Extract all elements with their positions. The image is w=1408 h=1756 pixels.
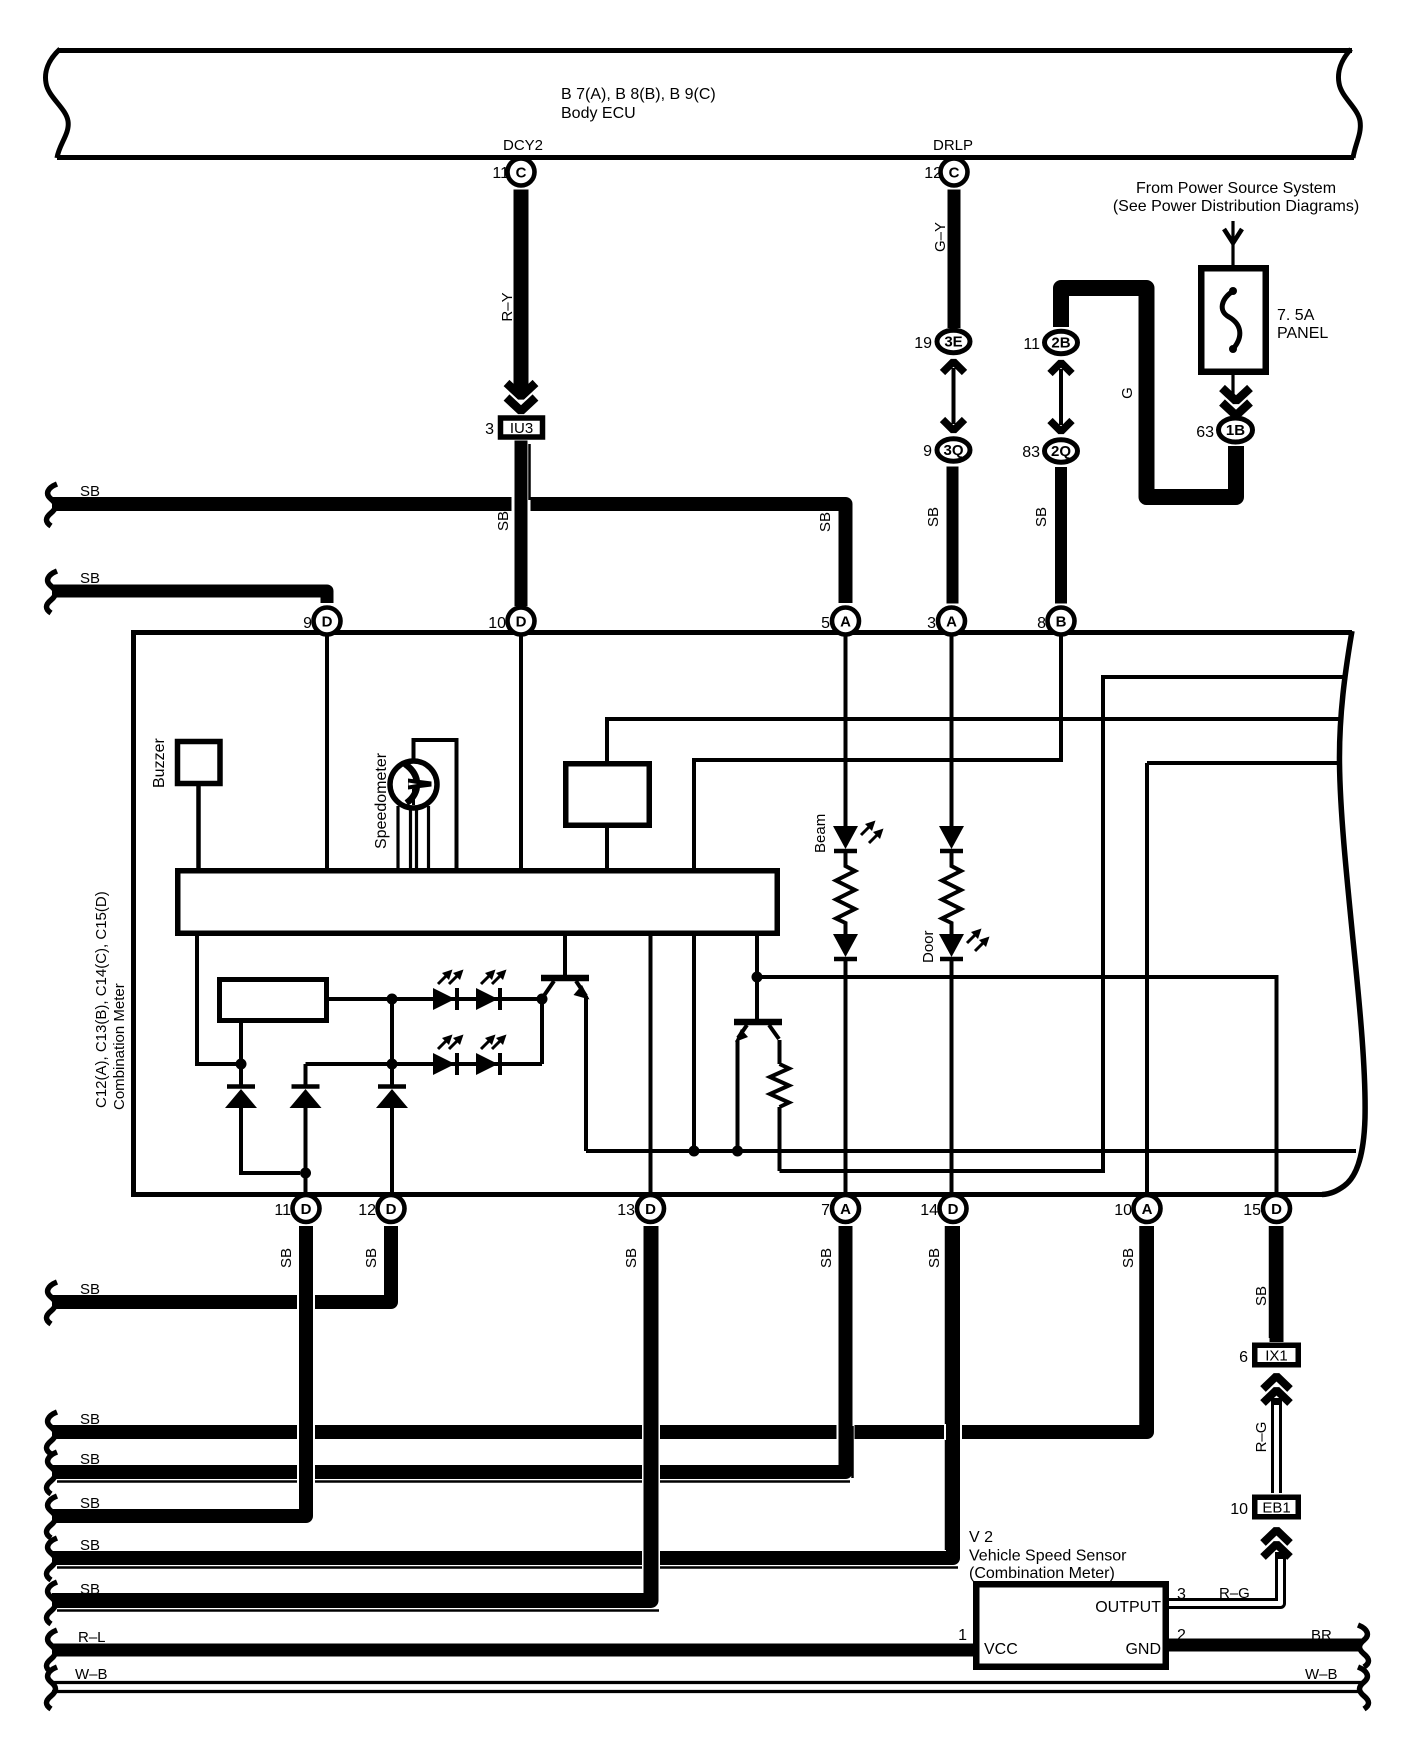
svg-text:V 2: V 2 [969, 1529, 993, 1546]
svg-text:R–G: R–G [1253, 1422, 1270, 1453]
svg-text:SB: SB [278, 1248, 295, 1268]
leftover thin wire under SB5 [57, 1566, 958, 1569]
harness break squiggle [47, 1412, 58, 1454]
arrow into IX1 [1263, 1376, 1290, 1389]
svg-text:Combination Meter: Combination Meter [111, 983, 128, 1110]
transistor Q2 [734, 1019, 782, 1026]
wire control block to D1 node [239, 1023, 243, 1064]
transistor Q1 base lead [563, 936, 567, 975]
wire row1 to diode D3 [390, 999, 394, 1086]
wire G-Y from C to 3E [948, 190, 961, 329]
wire R-Y from C to IU3 [514, 190, 529, 395]
wire SB pin 12D to harness break [382, 1226, 400, 1294]
svg-text:B 7(A), B 8(B), B 9(C): B 7(A), B 8(B), B 9(C) [561, 86, 716, 103]
leftover thin wire beside 14D wire [945, 1226, 948, 1424]
svg-text:Vehicle Speed Sensor: Vehicle Speed Sensor [969, 1548, 1127, 1565]
svg-text:SB: SB [495, 511, 512, 531]
svg-text:SB: SB [925, 507, 942, 527]
wire gauge block bottom to internal bus [605, 828, 609, 868]
svg-text:D: D [386, 1201, 397, 1218]
wire R2 to net A rail [778, 1107, 782, 1171]
svg-text:9: 9 [923, 443, 932, 460]
svg-text:IU3: IU3 [510, 420, 533, 437]
diode D3 [378, 1084, 406, 1089]
svg-text:PANEL: PANEL [1277, 325, 1328, 342]
leftover thin wire under SB6 [57, 1609, 659, 1612]
svg-text:SB: SB [1120, 1248, 1137, 1268]
node row1 right junction [537, 994, 548, 1005]
wire D1 to pin 11D node [241, 1108, 300, 1173]
svg-text:SB: SB [80, 1281, 100, 1298]
svg-text:D: D [645, 1201, 656, 1218]
connector pin 5 (A) [832, 608, 859, 635]
LED L2 [476, 988, 498, 1010]
svg-text:(See Power Distribution Diagra: (See Power Distribution Diagrams) [1113, 198, 1359, 215]
connector pin 9 (D) [314, 608, 341, 635]
svg-text:C12(A), C13(B), C14(C), C15(D): C12(A), C13(B), C14(C), C15(D) [93, 891, 110, 1108]
svg-text:3Q: 3Q [943, 442, 963, 459]
harness break squiggle [47, 1630, 58, 1672]
harness break squiggle [47, 571, 58, 613]
svg-text:G: G [1119, 387, 1136, 399]
diode D1 [227, 1084, 255, 1089]
svg-text:R–Y: R–Y [499, 292, 516, 321]
node pin 11D junction [300, 1168, 311, 1179]
wire bus to Q2 base node [755, 936, 759, 1019]
internal bus bar [178, 871, 778, 934]
fuse 7.5A PANEL box [1201, 268, 1266, 372]
svg-text:DCY2: DCY2 [503, 137, 543, 154]
arrow into 1B [1222, 388, 1250, 401]
connector pin 10 (A) [1134, 1195, 1161, 1222]
svg-text:12: 12 [358, 1202, 376, 1219]
wire arrow into IU3 [507, 383, 536, 397]
resistor (Door chain) [942, 851, 961, 934]
harness break squiggle (left) [47, 1667, 58, 1709]
svg-text:2: 2 [1177, 1627, 1186, 1644]
svg-text:BR: BR [1311, 1627, 1332, 1644]
svg-text:A: A [946, 614, 957, 631]
fuse element [1222, 291, 1240, 349]
wire between 2B and 2Q [1059, 369, 1063, 425]
svg-text:7. 5A: 7. 5A [1277, 307, 1315, 324]
svg-text:19: 19 [914, 335, 932, 352]
resistor R2 [770, 1064, 789, 1107]
wire Q1 emitter to rail [584, 996, 588, 1151]
wire G from 2B to 1B [1061, 288, 1236, 497]
svg-text:10: 10 [1230, 1501, 1248, 1518]
leftover thin wire beside IU3 wire [528, 444, 531, 500]
buzzer [178, 742, 221, 784]
wire SB from IU3 to meter pin 10D (crosses SB bus) [512, 480, 531, 528]
node row1 left junction [387, 994, 398, 1005]
vehicle speed sensor box [976, 1584, 1166, 1667]
LED L1 [433, 988, 455, 1010]
svg-text:D: D [301, 1201, 312, 1218]
svg-text:10: 10 [488, 615, 506, 632]
wire row2 to row1 [540, 999, 544, 1064]
node Q2 base junction [752, 972, 763, 983]
svg-text:Door: Door [920, 930, 937, 963]
internal control block [220, 980, 327, 1021]
node emitter rail junction 2 [732, 1146, 743, 1157]
wire LED Door to pin 14D [950, 960, 954, 1192]
svg-text:SB: SB [80, 1495, 100, 1512]
svg-text:2Q: 2Q [1051, 443, 1071, 460]
svg-text:D: D [948, 1201, 959, 1218]
transistor Q1 [541, 975, 589, 982]
wire SB from 3Q to meter pin 3A [947, 467, 959, 604]
connector 2Q [1045, 440, 1078, 462]
meter box top edge [131, 630, 1352, 635]
svg-text:OUTPUT: OUTPUT [1095, 1599, 1161, 1616]
svg-text:63: 63 [1196, 424, 1214, 441]
connector EB1 [1255, 1497, 1299, 1517]
connector pin 7 (A) [832, 1195, 859, 1222]
wire pin 10D to internal bus [519, 635, 523, 868]
wire between 3E and 3Q [952, 368, 956, 424]
mating arrow down above 3Q [943, 420, 965, 431]
wire loop from speedometer top to internal bus [414, 740, 457, 868]
speedometer gauge symbol [390, 761, 437, 808]
wire pin 9D to internal bus [325, 635, 329, 868]
svg-text:A: A [840, 614, 851, 631]
diode (Beam chain) [833, 934, 858, 957]
svg-text:A: A [1142, 1201, 1153, 1218]
mating arrow up below 3E [943, 362, 965, 373]
svg-text:9: 9 [303, 615, 312, 632]
connector C (DRLP, Body ECU) [941, 159, 968, 186]
svg-text:10: 10 [1114, 1202, 1132, 1219]
wire SB from 2Q to meter pin 8B [1055, 467, 1067, 604]
wire R-G from sensor OUTPUT to EB1 [1169, 1552, 1281, 1604]
node emitter rail junction 1 [689, 1146, 700, 1157]
internal gauge block [566, 764, 650, 826]
LED Door [939, 934, 964, 957]
connector pin 8 (B) [1048, 608, 1075, 635]
svg-text:EB1: EB1 [1262, 1500, 1290, 1517]
harness break squiggle [47, 1496, 58, 1538]
wire bus to diode D1 node [197, 936, 237, 1064]
wire Q2 collector to resistor R2 [778, 1040, 782, 1064]
svg-text:C: C [516, 165, 527, 182]
svg-text:3: 3 [485, 421, 494, 438]
svg-text:IX1: IX1 [1265, 1348, 1288, 1365]
svg-text:D: D [516, 614, 527, 631]
LED Beam [833, 826, 858, 849]
svg-text:SB: SB [1033, 507, 1050, 527]
wire D1 node to diode D1 [239, 1064, 243, 1086]
harness break squiggle [47, 1538, 58, 1580]
svg-text:11: 11 [492, 165, 509, 182]
connector pin 11 (D) [293, 1195, 320, 1222]
svg-text:SB: SB [80, 1581, 100, 1598]
svg-text:SB: SB [80, 483, 100, 500]
wire pin 3A down [950, 635, 954, 827]
connector pin 12 (D) [378, 1195, 405, 1222]
wire D2 to pin 11D [304, 1108, 308, 1192]
wire from power source into fuse [1231, 221, 1234, 266]
wire W-B across bottom [52, 1681, 1362, 1684]
wire R-G from EB1 to IX1 [1271, 1398, 1282, 1493]
wire SB pin 7A to harness break [837, 1226, 855, 1464]
svg-text:14: 14 [920, 1202, 938, 1219]
wire SB pin 10A to harness break [52, 1226, 1147, 1432]
svg-text:(Combination Meter): (Combination Meter) [969, 1565, 1115, 1582]
svg-text:SB: SB [363, 1248, 380, 1268]
svg-text:B: B [1056, 614, 1067, 631]
svg-text:SB: SB [80, 1451, 100, 1468]
svg-text:R–G: R–G [1219, 1585, 1250, 1602]
connector pin 10 (D) [508, 608, 535, 635]
svg-text:W–B: W–B [1305, 1666, 1338, 1683]
Body ECU box outline [59, 48, 1352, 53]
harness break squiggle (right) [1358, 1667, 1369, 1709]
LED L3 [433, 1053, 455, 1075]
leftover thin wire beside 15D wire [1269, 1226, 1272, 1338]
svg-text:SB: SB [80, 570, 100, 587]
wire diode to pin 7A [844, 960, 848, 1192]
svg-text:SB: SB [818, 1248, 835, 1268]
connector IU3 [501, 418, 543, 437]
svg-text:7: 7 [821, 1202, 830, 1219]
connector 3E [937, 330, 970, 352]
svg-text:DRLP: DRLP [933, 137, 973, 154]
svg-text:G–Y: G–Y [932, 222, 949, 252]
svg-text:SB: SB [926, 1248, 943, 1268]
harness break squiggle [47, 484, 58, 526]
from-power arrow [1224, 229, 1242, 243]
mating arrow down above 2Q [1050, 421, 1072, 432]
net A wire to torn edge [780, 677, 1344, 1171]
svg-text:11: 11 [1023, 336, 1040, 353]
harness break squiggle [47, 1582, 58, 1624]
wire SB from harness break to meter pin 9D [52, 591, 327, 603]
svg-text:12: 12 [924, 165, 942, 182]
wire pin 10A internal riser [1145, 763, 1149, 1192]
svg-text:W–B: W–B [75, 1666, 108, 1683]
svg-text:11: 11 [274, 1202, 291, 1219]
svg-text:SB: SB [80, 1411, 100, 1428]
arrow into EB1 [1263, 1530, 1290, 1543]
connector pin 14 (D) [940, 1195, 967, 1222]
meter box left edge [131, 630, 136, 1197]
wire pin 5A down [844, 635, 848, 827]
svg-text:D: D [322, 614, 333, 631]
svg-text:2B: 2B [1051, 335, 1070, 352]
svg-text:VCC: VCC [984, 1641, 1018, 1658]
wire D3 to pin 12D [390, 1108, 394, 1192]
wire bus to emitter rail [692, 936, 696, 1151]
svg-text:3: 3 [927, 615, 936, 632]
connector 2B [1045, 331, 1078, 353]
harness break squiggle [47, 1452, 58, 1494]
svg-text:83: 83 [1022, 444, 1040, 461]
meter box torn right edge [1322, 631, 1365, 1195]
wire SB pin 15D to IX1 [1270, 1226, 1284, 1342]
wire row2 to diode D2 [304, 1064, 308, 1086]
wire gauge block top to net B [607, 719, 1341, 761]
LED row 2 wire [306, 1062, 543, 1066]
connector pin 13 (D) [637, 1195, 664, 1222]
svg-text:3E: 3E [944, 334, 962, 351]
node D1 junction [236, 1059, 247, 1070]
svg-text:GND: GND [1125, 1641, 1161, 1658]
svg-text:C: C [949, 165, 960, 182]
svg-text:R–L: R–L [78, 1629, 106, 1646]
wire buzzer to internal bus [196, 786, 201, 869]
svg-text:8: 8 [1037, 615, 1046, 632]
resistor (Beam chain) [836, 851, 855, 934]
wire bus to pin 13D [649, 936, 653, 1192]
svg-text:SB: SB [623, 1248, 640, 1268]
svg-text:1B: 1B [1226, 422, 1245, 439]
svg-text:6: 6 [1239, 1349, 1248, 1366]
harness break squiggle (right) [1358, 1625, 1369, 1667]
svg-text:Body ECU: Body ECU [561, 105, 636, 122]
wire BR from sensor GND pin 2 to harness break [1169, 1639, 1362, 1652]
svg-text:A: A [840, 1201, 851, 1218]
svg-text:13: 13 [617, 1202, 635, 1219]
net D wire to torn edge [1147, 761, 1339, 765]
harness break squiggle [47, 1282, 58, 1324]
svg-text:Speedometer: Speedometer [373, 752, 390, 849]
leftover thin wire beside 10A wire [1139, 1226, 1142, 1426]
connector C (DCY2, Body ECU) [508, 159, 535, 186]
LED L4 [476, 1053, 498, 1075]
wire Q2 emitter to rail [736, 1040, 740, 1151]
connector pin 15 (D) [1263, 1195, 1290, 1222]
wire SB pin 13D to harness break [642, 1226, 660, 1592]
svg-text:1: 1 [958, 1627, 967, 1644]
diode (Door chain) [939, 826, 964, 849]
svg-text:D: D [1271, 1201, 1282, 1218]
connector 1B [1219, 418, 1253, 442]
svg-text:SB: SB [817, 512, 834, 532]
meter box bottom edge [131, 1192, 1324, 1197]
svg-text:5: 5 [821, 615, 830, 632]
svg-text:Buzzer: Buzzer [151, 738, 168, 788]
svg-text:Beam: Beam [812, 814, 829, 853]
wire SB from harness break to meter pin 5A [52, 504, 846, 603]
diode D2 [292, 1084, 320, 1089]
svg-text:SB: SB [1253, 1286, 1270, 1306]
connector 3Q [937, 439, 970, 461]
speedometer leads to internal bus [396, 806, 399, 868]
node row2 junction [387, 1059, 398, 1070]
connector IX1 [1255, 1345, 1299, 1365]
leftover thin wire under SB3 [57, 1480, 850, 1483]
wire R-L from harness break to sensor VCC pin 1 [52, 1644, 973, 1657]
svg-text:3: 3 [1177, 1586, 1186, 1603]
LED row 1 wire [329, 997, 542, 1001]
svg-text:From Power Source System: From Power Source System [1136, 180, 1336, 197]
connector pin 3 (A) [938, 608, 965, 635]
wire SB pin 14D to harness break [944, 1226, 962, 1550]
mating arrow up below 2B [1050, 363, 1072, 374]
svg-text:15: 15 [1243, 1202, 1261, 1219]
wire SB pin 11D to harness break [297, 1226, 315, 1508]
wire from fuse to 1B [1231, 375, 1234, 396]
wire pin 8B down and to internal bus [694, 635, 1061, 868]
emitter rail to torn edge [586, 1149, 1356, 1153]
svg-text:SB: SB [80, 1537, 100, 1554]
net E wire from Q2 base node to pin 15D [757, 977, 1277, 1192]
leftover thin wire beside 7A wire [851, 1426, 854, 1478]
